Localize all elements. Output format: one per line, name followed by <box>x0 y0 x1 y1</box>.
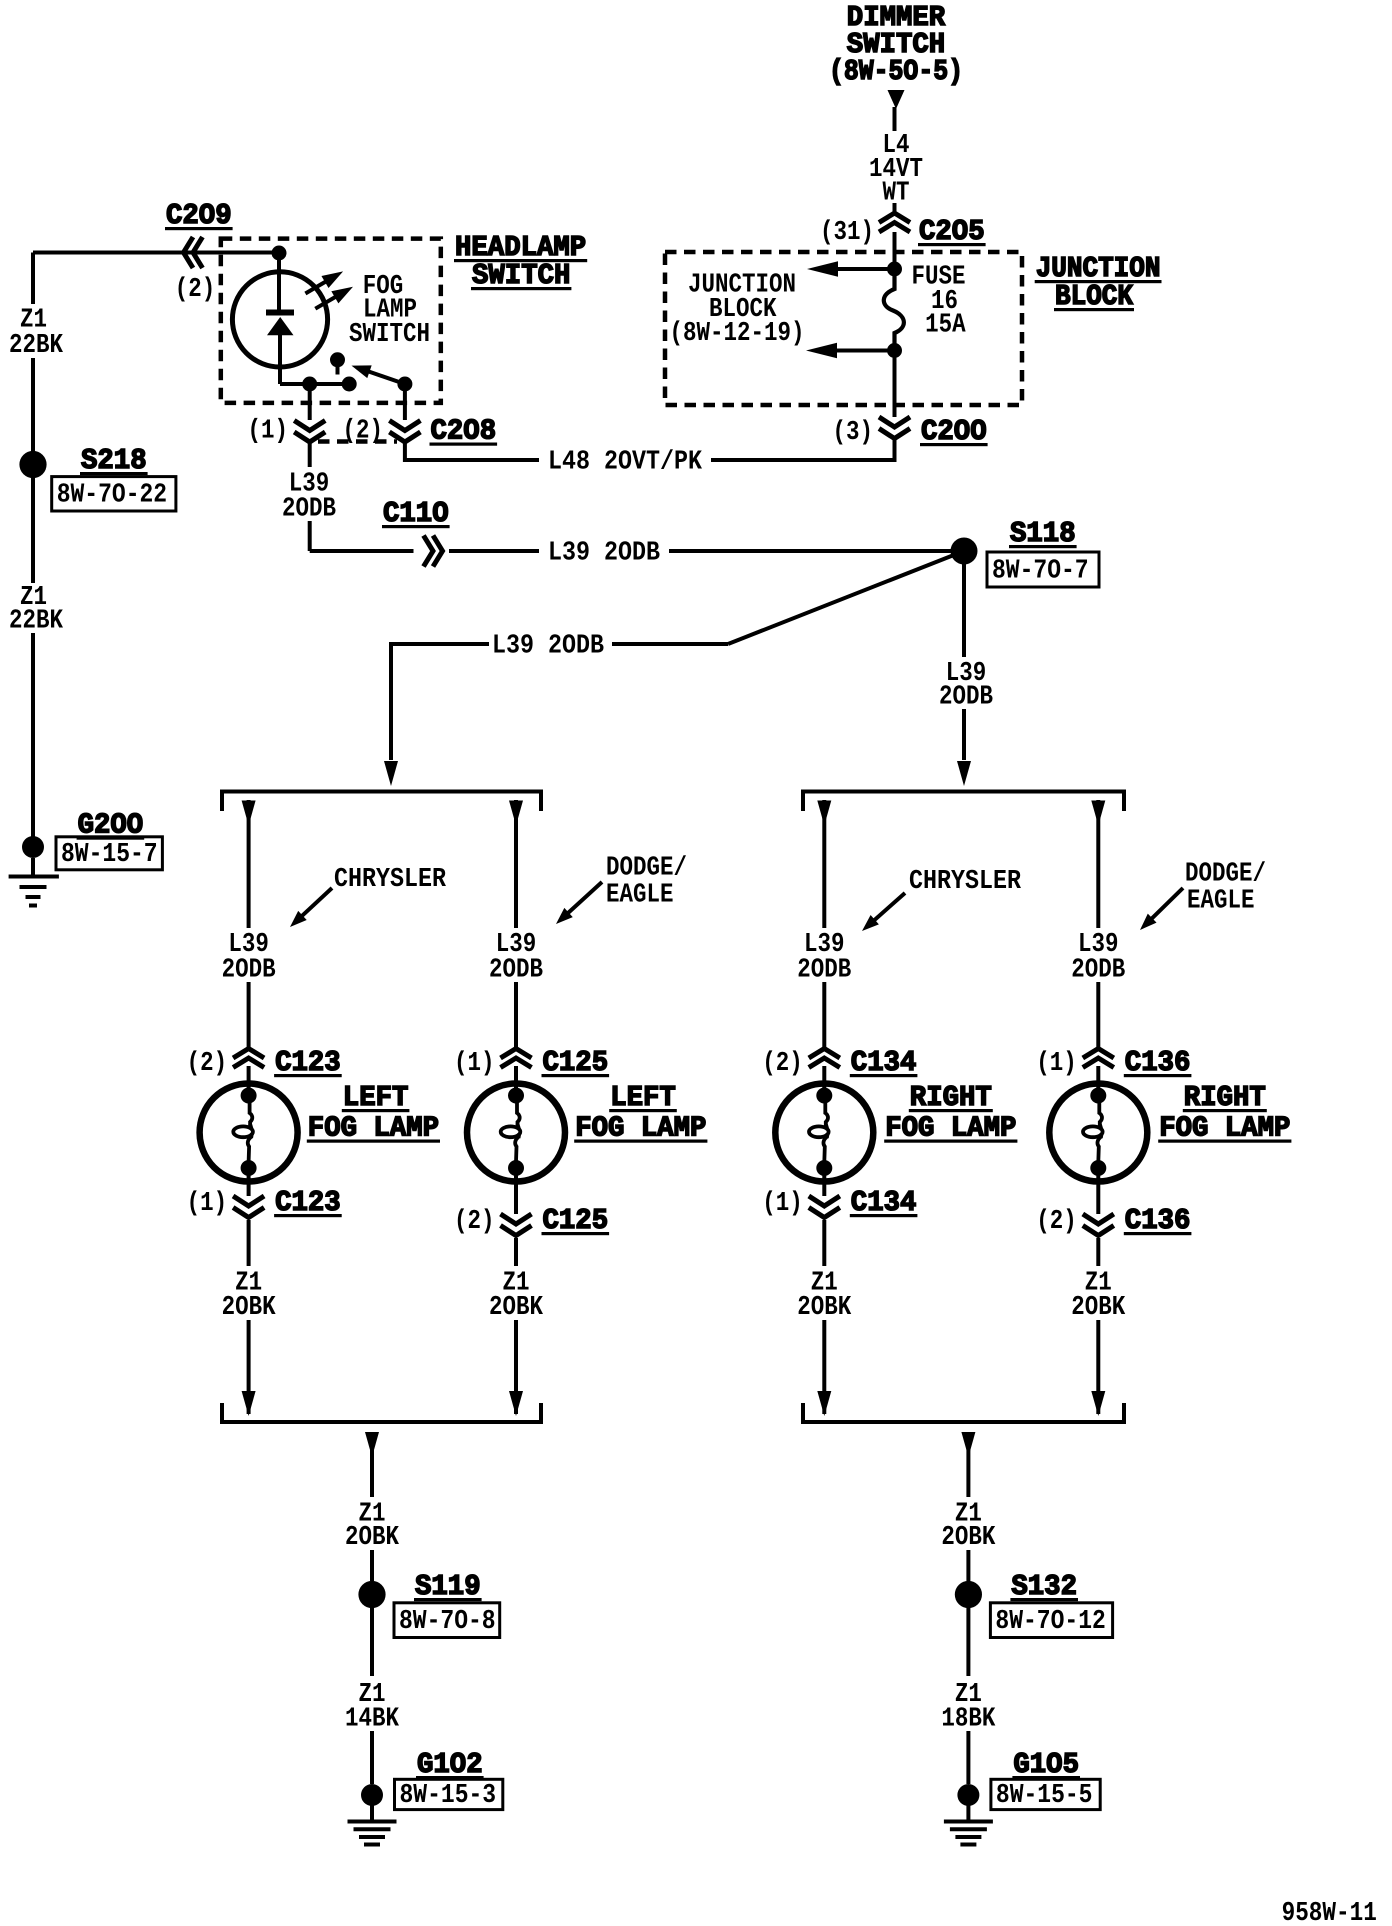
arrowhead below feed bus C134 <box>817 801 831 826</box>
ground symbol G200 <box>31 858 35 876</box>
wire from feed dot into fog lamp indicator <box>277 253 281 310</box>
wire L39 20DB into right bus <box>962 709 966 760</box>
wire Z1 22BK from S218 to G200 <box>31 477 35 583</box>
node fuse output dot <box>887 343 902 358</box>
connector C205 chevron <box>879 213 910 223</box>
indicator light ray arrow 2 <box>315 296 336 308</box>
arrowhead below feed bus C123 <box>242 801 256 826</box>
wire L39 20DB drop for C136 <box>1096 800 1100 928</box>
wire Z1 20BK below C123 <box>247 1220 251 1266</box>
wire contact to C208 pin 1 <box>308 384 312 420</box>
reference box 8W-70-12 <box>990 1603 1112 1638</box>
arrowhead below feed bus C136 <box>1091 801 1105 826</box>
wire L48 20VT/PK from C208 pin 2 <box>403 444 407 463</box>
wire Z1 20BK into ground bus from C134 <box>822 1320 826 1414</box>
ground symbol G105 <box>966 1805 970 1822</box>
svg-text:8W-7O-22: 8W-7O-22 <box>57 480 167 510</box>
wire Z1 20BK below C125 <box>514 1238 518 1266</box>
svg-text:CHRYSLER: CHRYSLER <box>334 864 446 894</box>
switch contact dots <box>302 377 317 392</box>
wire L39 20DB into left bus <box>391 642 489 646</box>
arrowhead into ground bus C125 <box>509 1391 523 1416</box>
connector C208 chevron pin 1 <box>294 421 325 431</box>
feed arrowhead into left bus <box>384 761 398 786</box>
svg-text:2OBK: 2OBK <box>345 1522 399 1552</box>
reference box 8W-70-8 <box>394 1603 500 1638</box>
ground G200 dot <box>22 836 44 858</box>
feed arrowhead into right bus <box>957 761 971 786</box>
arrow CHRYSLER left pair <box>301 888 332 917</box>
switch arm with arrowhead <box>368 371 405 384</box>
splice S132 dot <box>955 1581 982 1608</box>
svg-text:(3): (3) <box>833 417 874 447</box>
svg-text:8W-7O-12: 8W-7O-12 <box>995 1606 1105 1636</box>
svg-text:958W-11: 958W-11 <box>1282 1898 1377 1926</box>
wire lamp to lower chevron C136 <box>1096 1168 1100 1214</box>
indicator diode triangle <box>267 317 294 335</box>
wire Z1 20BK into ground bus from C136 <box>1096 1320 1100 1414</box>
connector C136 lower chevron <box>1083 1214 1114 1224</box>
wire L39 20DB into C123 <box>247 982 251 1050</box>
svg-text:8W-15-3: 8W-15-3 <box>400 1780 497 1810</box>
connector C123 lower chevron <box>233 1196 264 1206</box>
wire indicator to switch common <box>278 333 282 384</box>
wire L4 from dimmer switch to C205 <box>893 107 897 131</box>
connector C125 lower chevron <box>501 1214 532 1224</box>
wire Z1 14BK into G102 <box>370 1731 374 1784</box>
svg-text:2ODB: 2ODB <box>489 955 543 985</box>
svg-text:(2): (2) <box>454 1206 495 1236</box>
wire L39 20DB drop for C123 <box>247 800 251 928</box>
arrowhead into ground bus C123 <box>242 1391 256 1416</box>
connector C200 chevron <box>879 417 910 427</box>
svg-text:(1): (1) <box>187 1188 228 1218</box>
wire L39 20DB from C110 to S118 <box>449 549 539 553</box>
reference box 8W-15-3 <box>395 1779 503 1809</box>
wire into C205 <box>893 203 897 214</box>
wire Z1 18BK from S132 to G105 <box>966 1607 970 1676</box>
svg-text:2ODB: 2ODB <box>797 955 851 985</box>
lamp filament C134 <box>825 1101 828 1127</box>
fog lamp bulb circle C125 <box>467 1084 565 1182</box>
wire L48 20VT/PK to junction block <box>711 458 897 462</box>
wire Z1 22BK down left side <box>31 253 35 305</box>
arrowhead below ground bus S119 <box>365 1432 379 1457</box>
svg-text:CHRYSLER: CHRYSLER <box>909 866 1021 896</box>
svg-text:2ODB: 2ODB <box>222 955 276 985</box>
wire Z1 22BK to S218 <box>31 358 35 452</box>
wire L39 20DB diagonal from S118 to left bus <box>728 551 964 644</box>
wire between contacts 1 and 2 <box>310 382 350 386</box>
svg-text:(2): (2) <box>1036 1206 1077 1236</box>
svg-text:L39 2ODB: L39 2ODB <box>492 631 604 661</box>
svg-text:14BK: 14BK <box>345 1704 399 1734</box>
svg-text:(31): (31) <box>820 217 874 247</box>
svg-text:18BK: 18BK <box>941 1704 995 1734</box>
svg-text:22BK: 22BK <box>9 330 63 360</box>
arrowhead into ground bus C134 <box>817 1391 831 1416</box>
wire Z1 20BK into S119 <box>370 1550 374 1581</box>
wire L39 20DB into C125 <box>514 982 518 1050</box>
svg-text:EAGLE: EAGLE <box>1187 886 1255 916</box>
node fuse input dot <box>887 262 902 277</box>
indicator diode bar <box>266 310 294 316</box>
fog lamp switch indicator circle <box>232 272 327 367</box>
connector C110 chevron <box>424 536 434 567</box>
lamp terminal dots C134 <box>816 1088 832 1104</box>
svg-text:L48 2OVT/PK: L48 2OVT/PK <box>548 447 702 477</box>
wire from ground bus to S132 <box>966 1434 970 1497</box>
right ground bus bar <box>803 1420 1124 1424</box>
svg-text:(1): (1) <box>454 1048 495 1078</box>
wire C200 down to L48 corner <box>893 440 897 462</box>
fog lamp bulb circle C123 <box>200 1084 298 1182</box>
wire Z1 22BK horizontal from headlamp switch to left column <box>33 251 272 255</box>
wire from ground bus to S119 <box>370 1434 374 1497</box>
connector C125 upper chevron <box>501 1049 532 1059</box>
svg-text:2ODB: 2ODB <box>282 494 336 524</box>
wire Z1 20BK below C134 <box>822 1220 826 1266</box>
indicator light ray arrow 1 <box>305 281 326 293</box>
tick below upper contact <box>336 363 340 375</box>
ground symbol G102 <box>370 1805 374 1822</box>
left feed bus bar <box>222 790 541 794</box>
svg-text:DODGE/: DODGE/ <box>1185 859 1266 889</box>
svg-text:2ODB: 2ODB <box>939 682 993 712</box>
right feed bus bar <box>803 790 1124 794</box>
svg-text:2OBK: 2OBK <box>941 1522 995 1552</box>
arrowhead into ground bus C136 <box>1091 1391 1105 1416</box>
connector C209 chevron <box>184 237 194 268</box>
wire L39 20DB drop for C125 <box>514 800 518 928</box>
splice S118 dot <box>951 538 978 565</box>
svg-text:(8W-12-19): (8W-12-19) <box>670 318 805 348</box>
svg-text:2OBK: 2OBK <box>1071 1292 1125 1322</box>
svg-text:22BK: 22BK <box>9 606 63 636</box>
wire into lamp C136 <box>1096 1066 1100 1090</box>
svg-text:2OBK: 2OBK <box>797 1292 851 1322</box>
svg-text:SWITCH: SWITCH <box>349 319 430 349</box>
wire into lamp C123 <box>247 1066 251 1090</box>
svg-text:8W-7O-8: 8W-7O-8 <box>399 1606 496 1636</box>
wire Z1 22BK into G200 <box>31 633 35 837</box>
svg-text:2OBK: 2OBK <box>222 1292 276 1322</box>
lamp terminal dots C136 <box>1090 1088 1106 1104</box>
ground G105 dot <box>957 1784 979 1806</box>
connector C208 chevron pin 2 <box>389 421 420 431</box>
arrow to junction block circuits upper <box>836 267 895 271</box>
fuse 16 15A symbol <box>884 276 904 344</box>
svg-text:(8W-5O-5): (8W-5O-5) <box>829 55 963 88</box>
wire L39 20DB into C134 <box>822 982 826 1050</box>
wire L39 20DB into C136 <box>1096 982 1100 1050</box>
lamp filament C123 <box>250 1101 253 1127</box>
connector C208 dashed bar <box>318 439 397 444</box>
connector C134 upper chevron <box>809 1049 840 1059</box>
wire lamp to lower chevron C125 <box>514 1168 518 1214</box>
wire Z1 20BK below C136 <box>1096 1238 1100 1266</box>
lamp filament C125 <box>517 1101 520 1127</box>
wire Z1 20BK into ground bus from C125 <box>514 1320 518 1414</box>
svg-text:L39 2ODB: L39 2ODB <box>548 538 660 568</box>
svg-text:DODGE/: DODGE/ <box>606 853 687 883</box>
lamp filament C136 <box>1099 1101 1102 1127</box>
ground G102 dot <box>361 1784 383 1806</box>
wire L39 20DB drop for C134 <box>822 800 826 928</box>
svg-text:(1): (1) <box>762 1188 803 1218</box>
wire fuse to C200 <box>893 351 897 418</box>
arrow DODGE/EAGLE right pair <box>1151 888 1183 920</box>
svg-text:8W-7O-7: 8W-7O-7 <box>992 555 1089 585</box>
svg-text:(1): (1) <box>1036 1048 1077 1078</box>
arrow DODGE/EAGLE left pair <box>567 882 602 914</box>
arrow CHRYSLER right pair <box>873 893 905 921</box>
wire C205 to junction block <box>893 232 897 262</box>
svg-text:8W-15-7: 8W-15-7 <box>61 839 158 869</box>
connector C136 upper chevron <box>1083 1049 1114 1059</box>
node headlamp switch feed terminal <box>272 246 287 261</box>
arrow to junction block circuits lower <box>836 349 895 353</box>
reference box 8W-15-5 <box>991 1779 1100 1809</box>
reference box 8W-15-7 <box>56 837 162 870</box>
svg-text:2ODB: 2ODB <box>1071 955 1125 985</box>
wire L39 20DB to C110 <box>308 521 312 551</box>
reference box 8W-70-7 <box>987 552 1099 587</box>
wire Z1 20BK into S132 <box>966 1550 970 1581</box>
svg-text:EAGLE: EAGLE <box>606 880 674 910</box>
arrowhead below feed bus C125 <box>509 801 523 826</box>
svg-text:(2): (2) <box>175 274 216 304</box>
svg-text:(2): (2) <box>762 1048 803 1078</box>
svg-text:2OBK: 2OBK <box>489 1292 543 1322</box>
lamp terminal dots C125 <box>508 1088 524 1104</box>
fog lamp bulb circle C134 <box>775 1084 873 1182</box>
svg-text:8W-15-5: 8W-15-5 <box>996 1780 1093 1810</box>
wire L39 20DB into S118 <box>669 549 952 553</box>
junction block dashed box <box>665 252 1022 405</box>
lamp terminal dots C123 <box>241 1088 257 1104</box>
off-page connector arrow from dimmer switch <box>888 90 905 109</box>
fog lamp bulb circle C136 <box>1049 1084 1147 1182</box>
wire Z1 18BK into G105 <box>966 1731 970 1784</box>
wire L39 20DB from S118 down to right bus <box>962 560 966 657</box>
left ground bus bar <box>222 1420 541 1424</box>
headlamp switch dashed box <box>221 239 441 403</box>
wire Z1 14BK from S119 to G102 <box>370 1607 374 1676</box>
wire lamp to lower chevron C134 <box>822 1168 826 1196</box>
wire into lamp C134 <box>822 1066 826 1090</box>
svg-text:(2): (2) <box>187 1048 228 1078</box>
arrowhead below ground bus S132 <box>961 1432 975 1457</box>
svg-text:(1): (1) <box>248 416 289 446</box>
wire Z1 20BK into ground bus from C123 <box>247 1320 251 1414</box>
wire into lamp C125 <box>514 1066 518 1090</box>
wire contact to C208 pin 2 <box>403 384 407 420</box>
wire lamp to lower chevron C123 <box>247 1168 251 1196</box>
wire L39 20DB below C208 pin 1 <box>308 444 312 468</box>
connector C134 lower chevron <box>809 1196 840 1206</box>
splice S218 dot <box>19 451 46 478</box>
splice S119 dot <box>358 1581 385 1608</box>
connector C123 upper chevron <box>233 1049 264 1059</box>
svg-text:15A: 15A <box>925 310 966 340</box>
reference box 8W-70-22 <box>52 477 176 511</box>
